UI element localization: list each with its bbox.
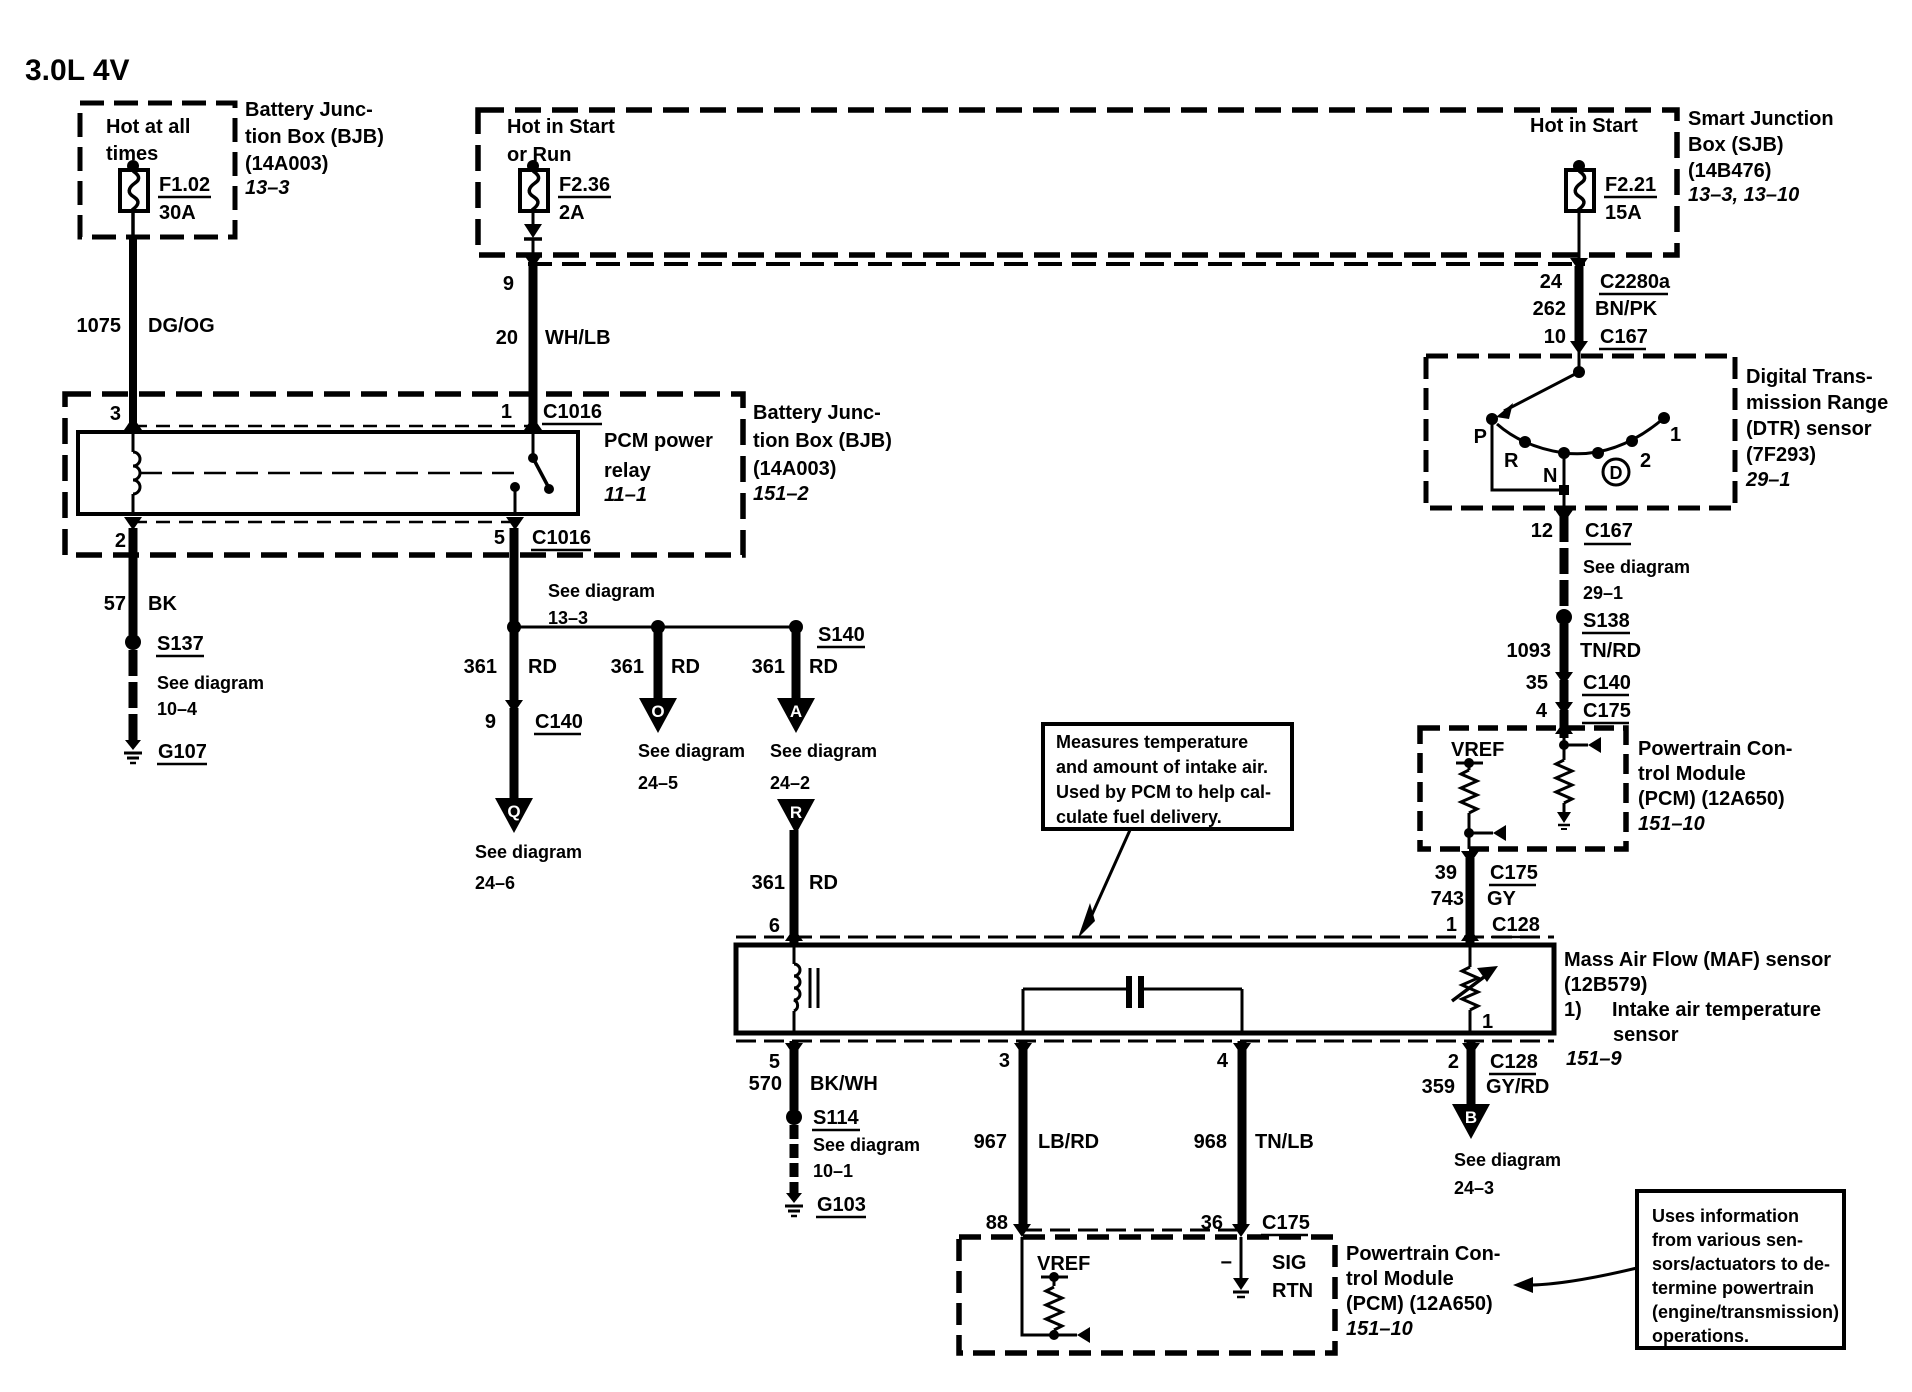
svg-text:2A: 2A <box>559 202 585 224</box>
svg-text:LB/RD: LB/RD <box>1038 1131 1099 1153</box>
svg-text:13–3: 13–3 <box>548 608 588 628</box>
svg-text:SIG: SIG <box>1272 1252 1306 1274</box>
PCM input node and buffer (right) <box>1563 730 1566 760</box>
contact N <box>1558 447 1570 459</box>
wire pin9 WH/LB down to relay pin 1 <box>529 266 538 425</box>
svg-text:S114: S114 <box>813 1107 859 1129</box>
PCM power relay box <box>78 432 578 514</box>
connector arrow MAF pin3 (down) <box>1014 1043 1032 1056</box>
svg-text:GY: GY <box>1487 888 1517 910</box>
svg-text:BK/WH: BK/WH <box>810 1073 878 1095</box>
ground G107 <box>125 740 141 750</box>
svg-text:BK: BK <box>148 593 177 615</box>
connector arrow C140 (down) <box>1555 672 1573 685</box>
fuse F2.36 2A <box>527 160 539 172</box>
svg-text:O: O <box>651 702 664 721</box>
wire P to N bottom <box>1492 419 1564 490</box>
svg-text:9: 9 <box>503 273 514 295</box>
connector arrow C175 (down) <box>1555 702 1573 715</box>
svg-text:9: 9 <box>485 711 496 733</box>
wire pin12 down to S138 (dashed thick) <box>1560 516 1569 609</box>
svg-text:sors/actuators to de-: sors/actuators to de- <box>1652 1254 1830 1274</box>
svg-text:GY/RD: GY/RD <box>1486 1076 1549 1098</box>
contact D (circled) <box>1603 459 1629 485</box>
DTR contact arc <box>1497 418 1664 454</box>
diode below F2.36 <box>532 211 535 224</box>
svg-text:20: 20 <box>496 327 518 349</box>
contact 2 <box>1626 435 1638 447</box>
svg-text:Powertrain Con-: Powertrain Con- <box>1638 738 1792 760</box>
relay actuator dashed line <box>140 472 524 475</box>
svg-text:F2.21: F2.21 <box>1605 174 1656 196</box>
node and buffer (left) <box>1464 828 1474 838</box>
svg-text:4: 4 <box>1536 700 1548 722</box>
svg-text:(PCM) (12A650): (PCM) (12A650) <box>1346 1293 1493 1315</box>
wire into PCM <box>1560 710 1569 738</box>
svg-text:C140: C140 <box>1583 672 1631 694</box>
svg-text:or Run: or Run <box>507 144 571 166</box>
svg-text:57: 57 <box>104 593 126 615</box>
svg-text:88: 88 <box>986 1212 1008 1234</box>
svg-text:−: − <box>1220 1252 1232 1274</box>
svg-text:Hot at all: Hot at all <box>106 116 190 138</box>
connector arrow MAF pin5 (down) <box>785 1043 803 1056</box>
svg-text:1): 1) <box>1564 999 1582 1021</box>
connector arrow C140 (down) <box>505 700 523 713</box>
svg-text:TN/RD: TN/RD <box>1580 640 1641 662</box>
connector arrow pin 88 (down) <box>1013 1224 1031 1237</box>
svg-text:S140: S140 <box>818 624 865 646</box>
svg-text:from various sen-: from various sen- <box>1652 1230 1803 1250</box>
svg-text:See diagram: See diagram <box>770 741 877 761</box>
wire 262 BN/PK <box>1575 266 1584 344</box>
powertrain control module PCM (upper dashed box) <box>1420 728 1626 849</box>
svg-text:See diagram: See diagram <box>157 673 264 693</box>
resistor (VREF) <box>1468 763 1471 770</box>
svg-text:361: 361 <box>752 872 785 894</box>
connector line C1016 (top, pins 3 and 1) <box>133 425 533 428</box>
wire C140 to C175 <box>1560 680 1569 702</box>
wire N down to pin 12 <box>1563 453 1566 508</box>
svg-text:35: 35 <box>1526 672 1548 694</box>
note arrow to PCM label <box>1532 1268 1637 1285</box>
svg-text:WH/LB: WH/LB <box>545 327 611 349</box>
wire fuse F1.02 to relay pin 3 <box>131 211 135 240</box>
wire branch 2 (361 RD middle) <box>654 627 663 700</box>
svg-text:262: 262 <box>1533 298 1566 320</box>
svg-text:Used by PCM to help cal-: Used by PCM to help cal- <box>1056 782 1271 802</box>
svg-text:3: 3 <box>110 403 121 425</box>
relay coil <box>132 432 135 452</box>
resistor (VREF bottom) <box>1053 1277 1056 1286</box>
svg-text:Digital Trans-: Digital Trans- <box>1746 366 1873 388</box>
svg-text:24: 24 <box>1540 271 1563 293</box>
svg-text:10–1: 10–1 <box>813 1161 853 1181</box>
svg-text:RD: RD <box>671 656 700 678</box>
svg-text:(14A003): (14A003) <box>753 458 836 480</box>
connector arrow pin 12 (down) <box>1555 510 1573 523</box>
relay switch <box>532 426 535 458</box>
connector arrow pin 39 (down) <box>1461 851 1479 864</box>
powertrain control module PCM (bottom dashed box) <box>959 1237 1335 1353</box>
node S140 junction dots <box>507 620 521 634</box>
svg-text:P: P <box>1474 426 1487 448</box>
offpage arrow Q <box>495 798 533 833</box>
wire pin4 968 TN/LB <box>1238 1041 1247 1228</box>
svg-text:968: 968 <box>1194 1131 1227 1153</box>
svg-text:tion Box (BJB): tion Box (BJB) <box>753 430 892 452</box>
svg-text:RD: RD <box>809 872 838 894</box>
MAF heater coil <box>793 945 796 964</box>
connector arrow pin 3 (up) <box>124 417 142 430</box>
svg-text:3: 3 <box>999 1050 1010 1072</box>
svg-text:Hot in Start: Hot in Start <box>507 116 615 138</box>
svg-text:C175: C175 <box>1583 700 1631 722</box>
MAF connector dashed line (bottom) <box>736 1040 1554 1043</box>
svg-text:See diagram: See diagram <box>1583 557 1690 577</box>
svg-text:(12B579): (12B579) <box>1564 974 1647 996</box>
svg-text:F2.36: F2.36 <box>559 174 610 196</box>
connector line C2280a (second dashed line under SJB) <box>528 262 1585 266</box>
MAF sense element (capacitor-like) between pins 3 and 4 <box>1022 989 1025 1033</box>
svg-text:A: A <box>790 702 802 721</box>
smart junction box SJB (long top dashed box) <box>478 110 1677 255</box>
svg-text:(14B476): (14B476) <box>1688 160 1771 182</box>
svg-text:12: 12 <box>1531 520 1553 542</box>
svg-text:15A: 15A <box>1605 202 1642 224</box>
svg-text:967: 967 <box>974 1131 1007 1153</box>
internal ground arrow (SIG RTN) <box>1233 1278 1249 1290</box>
svg-text:sensor: sensor <box>1613 1024 1679 1046</box>
svg-text:361: 361 <box>464 656 497 678</box>
connector arrow MAF pin2 (down) <box>1462 1043 1480 1056</box>
svg-text:tion Box (BJB): tion Box (BJB) <box>245 126 384 148</box>
svg-text:D: D <box>1610 463 1623 483</box>
svg-text:operations.: operations. <box>1652 1326 1749 1346</box>
svg-text:4: 4 <box>1217 1050 1229 1072</box>
svg-text:24–2: 24–2 <box>770 773 810 793</box>
svg-text:(DTR) sensor: (DTR) sensor <box>1746 418 1872 440</box>
wire pin 5 down to junction <box>510 528 519 627</box>
svg-text:mission Range: mission Range <box>1746 392 1888 414</box>
fuse F1.02 30A <box>127 160 139 172</box>
svg-text:C167: C167 <box>1585 520 1633 542</box>
svg-text:termine powertrain: termine powertrain <box>1652 1278 1814 1298</box>
svg-text:trol Module: trol Module <box>1638 763 1746 785</box>
svg-text:BN/PK: BN/PK <box>1595 298 1658 320</box>
offpage arrow A <box>777 698 815 733</box>
connector arrow at C167 pin 10 <box>1570 341 1588 354</box>
ground G103 <box>786 1193 802 1203</box>
svg-text:culate fuel delivery.: culate fuel delivery. <box>1056 807 1222 827</box>
svg-text:S138: S138 <box>1583 610 1630 632</box>
svg-text:See diagram: See diagram <box>475 842 582 862</box>
MAF connector dashed line (top C128) <box>736 936 1554 939</box>
note arrow to MAF box <box>1086 830 1130 928</box>
connector arrow into PCM top (up) <box>1555 721 1573 734</box>
svg-text:RD: RD <box>528 656 557 678</box>
resistor (right, to ground) <box>1556 760 1572 803</box>
connector arrow pin 1 (up) <box>524 417 542 430</box>
svg-text:Battery Junc-: Battery Junc- <box>753 402 881 424</box>
svg-text:5: 5 <box>769 1051 780 1073</box>
wire pin3 967 LB/RD <box>1019 1041 1028 1228</box>
wire pin 36 inside PCM (SIG RTN) <box>1240 1237 1243 1278</box>
wire S137 to G107 (dashed thick) <box>129 650 138 740</box>
svg-text:24–6: 24–6 <box>475 873 515 893</box>
svg-text:F1.02: F1.02 <box>159 174 210 196</box>
svg-text:C167: C167 <box>1600 326 1648 348</box>
svg-text:11–1: 11–1 <box>604 484 647 506</box>
svg-text:G107: G107 <box>158 741 207 763</box>
svg-text:29–1: 29–1 <box>1583 583 1623 603</box>
wire pin2 359 GY/RD <box>1467 1041 1476 1106</box>
contact 1 <box>1658 412 1670 424</box>
svg-text:151–10: 151–10 <box>1638 813 1705 835</box>
svg-text:PCM power: PCM power <box>604 430 713 452</box>
svg-text:See diagram: See diagram <box>1454 1150 1561 1170</box>
svg-text:2: 2 <box>1640 450 1651 472</box>
svg-text:13–3: 13–3 <box>245 177 290 199</box>
svg-text:C1016: C1016 <box>543 401 602 423</box>
svg-text:Mass Air Flow (MAF) sensor: Mass Air Flow (MAF) sensor <box>1564 949 1831 971</box>
svg-text:5: 5 <box>494 527 505 549</box>
wire to Q arrow <box>510 708 519 800</box>
wire pin 39 down to MAF pin 1 <box>1466 858 1475 943</box>
fuse F2.21 15A <box>1573 160 1585 172</box>
svg-text:29–1: 29–1 <box>1745 469 1791 491</box>
wire R arrow down to MAF pin 6 <box>790 830 799 943</box>
connector arrow pin 5 (down) <box>506 517 524 530</box>
connector arrow MAF pin4 (down) <box>1233 1043 1251 1056</box>
svg-text:C128: C128 <box>1490 1051 1538 1073</box>
svg-text:36: 36 <box>1201 1212 1223 1234</box>
contact P <box>1486 413 1498 425</box>
svg-text:10: 10 <box>1544 326 1566 348</box>
svg-text:R: R <box>1504 450 1519 472</box>
svg-text:C175: C175 <box>1262 1212 1310 1234</box>
svg-text:relay: relay <box>604 460 652 482</box>
wire branch 3 (361 RD right) <box>792 627 801 700</box>
offpage arrow B <box>1452 1104 1490 1139</box>
connector arrow MAF pin1 (up) <box>1461 928 1479 941</box>
connector arrow at pin 9 <box>524 255 542 268</box>
svg-text:Uses information: Uses information <box>1652 1206 1799 1226</box>
svg-text:(engine/transmission): (engine/transmission) <box>1652 1302 1839 1322</box>
connector arrow pin 36 (down) <box>1232 1224 1250 1237</box>
wire pin5 570 BK/WH <box>790 1041 799 1110</box>
svg-text:VREF: VREF <box>1451 739 1504 761</box>
svg-text:743: 743 <box>1431 888 1464 910</box>
svg-text:(7F293): (7F293) <box>1746 444 1816 466</box>
svg-text:RTN: RTN <box>1272 1280 1313 1302</box>
svg-text:Q: Q <box>507 802 520 821</box>
svg-text:361: 361 <box>752 656 785 678</box>
svg-text:G103: G103 <box>817 1194 866 1216</box>
IAT thermistor (variable resistor) <box>1469 945 1472 967</box>
svg-text:6: 6 <box>769 915 780 937</box>
svg-text:C1016: C1016 <box>532 527 591 549</box>
svg-text:2: 2 <box>115 530 126 552</box>
connector line C1016 (bottom, pins 2 and 5) <box>133 521 515 524</box>
svg-text:(PCM) (12A650): (PCM) (12A650) <box>1638 788 1785 810</box>
buffer triangle <box>1077 1327 1090 1343</box>
svg-text:1093: 1093 <box>1507 640 1552 662</box>
svg-text:1: 1 <box>1446 914 1457 936</box>
svg-text:See diagram: See diagram <box>813 1135 920 1155</box>
svg-text:RD: RD <box>809 656 838 678</box>
svg-text:trol Module: trol Module <box>1346 1268 1454 1290</box>
wire S114 to G103 (dashed thick) <box>790 1125 799 1193</box>
battery junction box BJB (top-left dashed box) <box>80 103 235 237</box>
svg-text:See diagram: See diagram <box>638 741 745 761</box>
svg-text:10–4: 10–4 <box>157 699 197 719</box>
svg-text:359: 359 <box>1422 1076 1455 1098</box>
offpage arrow O <box>639 698 677 733</box>
internal ground arrow (right) <box>1557 812 1571 823</box>
junction wire (horizontal) <box>514 626 796 629</box>
DTR selector arm (arrow to P) <box>1504 372 1579 411</box>
splice S137 <box>125 634 141 650</box>
node inside DTR <box>1573 366 1585 378</box>
svg-text:TN/LB: TN/LB <box>1255 1131 1314 1153</box>
svg-text:151–2: 151–2 <box>753 483 809 505</box>
wire pin 88 inside PCM <box>1022 1237 1077 1335</box>
contact R <box>1519 436 1531 448</box>
svg-text:13–3, 13–10: 13–3, 13–10 <box>1688 184 1799 206</box>
svg-text:See diagram: See diagram <box>548 581 655 601</box>
wire F2.21 down inside SJB <box>1578 211 1581 258</box>
battery junction box BJB 151-2 (dashed box around relay) <box>65 394 743 555</box>
svg-text:Powertrain Con-: Powertrain Con- <box>1346 1243 1500 1265</box>
mass air flow MAF sensor box <box>736 945 1554 1033</box>
svg-text:(14A003): (14A003) <box>245 153 328 175</box>
svg-text:R: R <box>790 803 802 822</box>
svg-text:Intake air temperature: Intake air temperature <box>1612 999 1821 1021</box>
svg-text:Box (SJB): Box (SJB) <box>1688 134 1784 156</box>
wire 1093 TN/RD <box>1560 624 1569 672</box>
svg-text:1075: 1075 <box>77 315 122 337</box>
svg-text:1: 1 <box>501 401 512 423</box>
note box: Measures temperature ... <box>1043 724 1292 829</box>
svg-text:C128: C128 <box>1492 914 1540 936</box>
svg-text:VREF: VREF <box>1037 1253 1090 1275</box>
connector arrow MAF pin6 (up) <box>785 928 803 941</box>
svg-text:2: 2 <box>1448 1051 1459 1073</box>
svg-text:24–3: 24–3 <box>1454 1178 1494 1198</box>
svg-text:24–5: 24–5 <box>638 773 678 793</box>
wire branch 1 (361 RD left) <box>510 627 519 700</box>
svg-text:and amount of intake air.: and amount of intake air. <box>1056 757 1268 777</box>
svg-text:Smart Junction: Smart Junction <box>1688 108 1834 130</box>
note box: Uses information ... <box>1637 1191 1844 1348</box>
core bars <box>809 968 812 1008</box>
svg-text:Measures temperature: Measures temperature <box>1056 732 1248 752</box>
svg-text:30A: 30A <box>159 202 196 224</box>
svg-text:Battery Junc-: Battery Junc- <box>245 99 373 121</box>
DTR sensor dashed box <box>1426 356 1735 508</box>
svg-text:C2280a: C2280a <box>1600 271 1671 293</box>
svg-text:570: 570 <box>749 1073 782 1095</box>
svg-text:N: N <box>1543 465 1557 487</box>
connector arrow at pin 24 <box>1570 258 1588 271</box>
svg-text:1: 1 <box>1670 424 1681 446</box>
svg-text:C175: C175 <box>1490 862 1538 884</box>
svg-text:B: B <box>1465 1108 1477 1127</box>
svg-text:DG/OG: DG/OG <box>148 315 215 337</box>
wire pin 2 down 57 BK <box>129 528 138 635</box>
svg-text:S137: S137 <box>157 633 204 655</box>
svg-text:39: 39 <box>1435 862 1457 884</box>
svg-text:361: 361 <box>611 656 644 678</box>
svg-text:Hot in Start: Hot in Start <box>1530 115 1638 137</box>
connector line C175 (bottom PCM pins 88/36) <box>1022 1229 1241 1232</box>
svg-text:151–10: 151–10 <box>1346 1318 1413 1340</box>
svg-text:C140: C140 <box>535 711 583 733</box>
splice S138 <box>1556 609 1572 625</box>
svg-text:1: 1 <box>1482 1011 1493 1033</box>
svg-text:3.0L 4V: 3.0L 4V <box>25 54 130 87</box>
splice S114 <box>786 1109 802 1125</box>
connector arrow pin 2 (down) <box>124 517 142 530</box>
svg-text:151–9: 151–9 <box>1566 1048 1622 1070</box>
offpage arrow R (incoming) <box>777 799 815 834</box>
